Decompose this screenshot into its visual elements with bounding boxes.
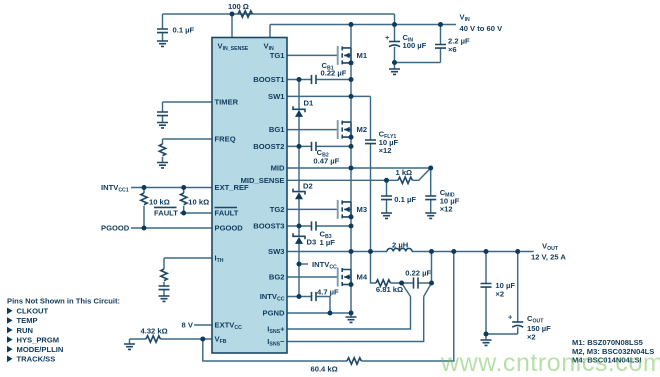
svg-text:BG1: BG1 — [269, 125, 285, 134]
svg-text:+: + — [508, 313, 513, 322]
svg-text:BOOST1: BOOST1 — [253, 75, 285, 84]
svg-text:RUN: RUN — [17, 326, 33, 335]
svg-text:PGOOD: PGOOD — [101, 224, 130, 233]
svg-text:TIMER: TIMER — [215, 98, 239, 107]
svg-text:MID: MID — [271, 164, 285, 173]
svg-text:8 V: 8 V — [182, 321, 194, 330]
svg-text:M4: M4 — [357, 273, 368, 282]
svg-text:TRACK/SS: TRACK/SS — [17, 355, 56, 364]
svg-text:×6: ×6 — [448, 45, 457, 54]
svg-text:0.22 µF: 0.22 µF — [405, 269, 431, 278]
svg-text:TG2: TG2 — [270, 205, 285, 214]
svg-text:Pins Not Shown in This Circuit: Pins Not Shown in This Circuit: — [7, 296, 120, 305]
svg-text:TG1: TG1 — [270, 51, 286, 60]
svg-text:×12: ×12 — [379, 146, 392, 155]
svg-text:BOOST2: BOOST2 — [253, 142, 284, 151]
svg-text:10 kΩ: 10 kΩ — [188, 198, 209, 207]
svg-text:HYS_PRGM: HYS_PRGM — [17, 335, 60, 344]
svg-text:BG2: BG2 — [269, 273, 285, 282]
svg-text:www.cntronics.com: www.cntronics.com — [440, 349, 660, 377]
svg-text:MODE/PLLIN: MODE/PLLIN — [17, 345, 64, 354]
svg-text:M3: M3 — [357, 205, 368, 214]
svg-text:+: + — [385, 33, 390, 42]
svg-text:4.7 µF: 4.7 µF — [317, 287, 339, 296]
svg-text:4.32 kΩ: 4.32 kΩ — [141, 327, 168, 336]
svg-text:M2: M2 — [357, 125, 368, 134]
svg-text:TEMP: TEMP — [17, 316, 38, 325]
svg-text:×12: ×12 — [440, 205, 453, 214]
svg-text:0.22 µF: 0.22 µF — [321, 69, 347, 78]
svg-text:100 Ω: 100 Ω — [228, 2, 249, 11]
svg-text:FAULT: FAULT — [215, 209, 239, 218]
svg-text:6.81 kΩ: 6.81 kΩ — [376, 285, 403, 294]
svg-text:40 V to 60 V: 40 V to 60 V — [460, 24, 504, 33]
svg-text:1 µF: 1 µF — [320, 238, 336, 247]
svg-text:0.1 µF: 0.1 µF — [394, 195, 416, 204]
svg-text:2 µH: 2 µH — [392, 240, 408, 249]
svg-text:10 kΩ: 10 kΩ — [149, 198, 170, 207]
svg-text:2.2 µF: 2.2 µF — [448, 37, 470, 46]
svg-text:SW3: SW3 — [268, 247, 284, 256]
svg-text:FREQ: FREQ — [215, 135, 236, 144]
svg-text:FAULT: FAULT — [154, 209, 178, 218]
svg-text:D1: D1 — [304, 99, 314, 108]
svg-text:CLKOUT: CLKOUT — [17, 307, 49, 316]
svg-text:SW1: SW1 — [268, 92, 285, 101]
svg-text:×2: ×2 — [527, 333, 536, 342]
svg-text:PGND: PGND — [263, 309, 285, 318]
svg-text:BOOST3: BOOST3 — [253, 222, 284, 231]
svg-text:PGOOD: PGOOD — [215, 224, 244, 233]
svg-text:100 µF: 100 µF — [403, 41, 427, 50]
svg-text:M1: M1 — [357, 51, 368, 60]
svg-text:MID_SENSE: MID_SENSE — [241, 176, 285, 185]
svg-text:12 V, 25 A: 12 V, 25 A — [531, 252, 566, 261]
svg-text:0.47 µF: 0.47 µF — [313, 156, 339, 165]
svg-text:×2: ×2 — [495, 290, 504, 299]
svg-text:D2: D2 — [303, 182, 313, 191]
svg-text:0.1 µF: 0.1 µF — [173, 26, 195, 35]
svg-text:D3: D3 — [307, 238, 317, 247]
svg-text:60.4 kΩ: 60.4 kΩ — [311, 365, 338, 374]
svg-text:M1: BSZ070N08LS5: M1: BSZ070N08LS5 — [572, 338, 644, 347]
svg-text:1 kΩ: 1 kΩ — [396, 168, 413, 177]
